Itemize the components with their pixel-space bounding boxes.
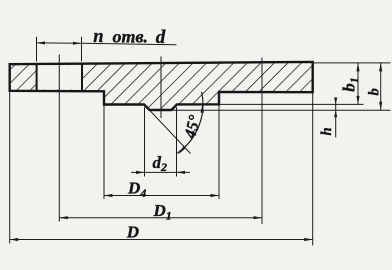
dimension h : vertical dimension line, outside arrows	[335, 97, 337, 137]
top-right extension line (flange top extended for b1 and b)	[314, 62, 391, 64]
45 degree arc arrowheads	[201, 104, 204, 113]
spigot bottom extension line (y=110.3 extended right for b and h)	[171, 109, 390, 111]
dimension D4 : extension lines	[103, 104, 105, 199]
dimension b : vertical dimension line with arrows	[380, 63, 382, 110]
dimension D1 : right extension line	[261, 58, 263, 225]
dimension D : extension lines	[9, 91, 11, 243]
dimension n otv. d : dimension line with arrows	[37, 42, 82, 44]
dimension n otv. d : extension lines above hole	[36, 37, 38, 62]
facing surface extension line (y=104.4 extended right for b1 and h)	[219, 103, 364, 105]
dimension D4 : dimension line with arrows	[104, 195, 219, 197]
dimension d2 : extension lines	[144, 107, 146, 176]
svg-text:h: h	[319, 127, 335, 135]
45 degree dimension arc	[177, 92, 203, 153]
dimension D : dimension line with arrows	[10, 239, 313, 241]
bolt hole interior (white cut through section)	[38, 65, 81, 89]
bolt hole right wall	[81, 64, 83, 91]
bolt hole left wall	[36, 64, 38, 91]
dimension b1 : vertical dimension line with arrows	[357, 63, 359, 105]
svg-text:отв.: отв.	[113, 26, 149, 46]
dimension D1 : dimension line with arrows	[59, 217, 262, 219]
flange central axis center line (x=161)	[160, 57, 162, 119]
flange body section outline with facing step and spigot, hatched	[10, 62, 313, 110]
svg-text:D: D	[126, 222, 139, 241]
svg-text:n: n	[93, 27, 103, 47]
dimension n otv. d : text shelf line	[82, 43, 177, 44]
45 degree chamfer construction line (extended)	[145, 105, 191, 154]
svg-text:b: b	[367, 88, 383, 95]
dimension d2 : dimension line with outside arrows	[131, 171, 190, 173]
svg-text:d: d	[156, 27, 166, 48]
bolt hole axis center line (x=59.5)	[58, 55, 60, 222]
